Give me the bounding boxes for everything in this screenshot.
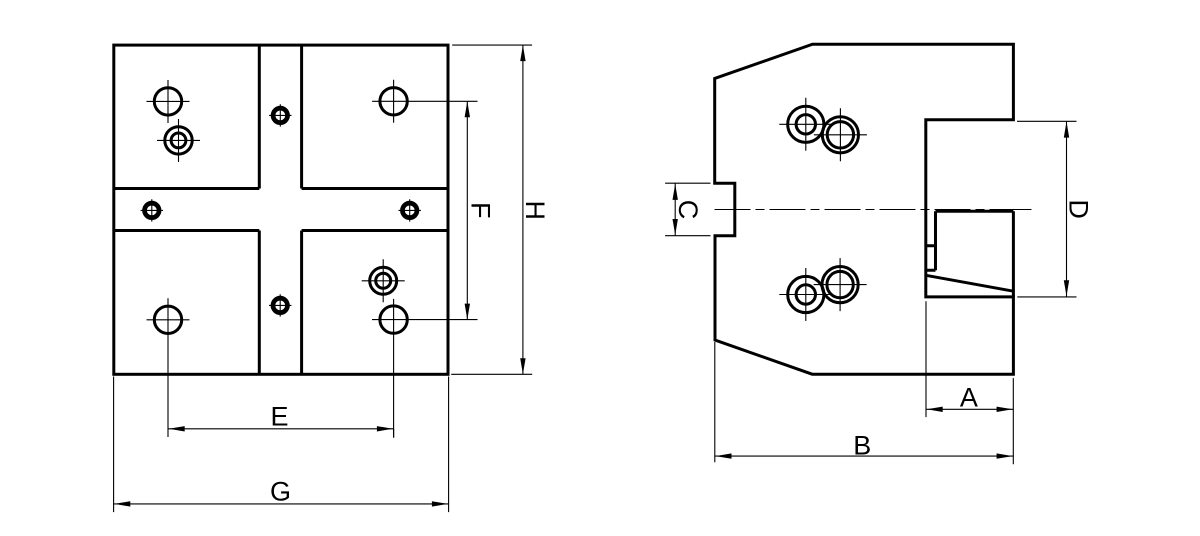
small hole top channel (269, 104, 291, 126)
svg-text:D: D (1064, 199, 1094, 219)
svg-text:E: E (270, 401, 288, 431)
dimension E (168, 401, 394, 437)
side hole top-right (814, 108, 867, 161)
centerline (715, 209, 1032, 211)
side hole bottom-right (814, 258, 867, 311)
dimension B (715, 342, 1014, 462)
dimension D (1017, 121, 1094, 297)
svg-text:C: C (673, 200, 703, 220)
hole top-left (147, 80, 190, 123)
side hole top-left counterbore (779, 98, 832, 151)
counterbore hole bottom-right quadrant (362, 259, 405, 302)
dimension A (926, 301, 1013, 464)
svg-text:H: H (520, 201, 550, 221)
dimension G (114, 377, 449, 513)
counterbore hole top-left (157, 119, 200, 162)
cross channel edges (114, 45, 448, 374)
dimension C (665, 183, 710, 236)
svg-text:G: G (270, 477, 291, 507)
hole bottom-left (147, 298, 190, 437)
small hole bottom channel (269, 294, 291, 316)
side view outline (715, 44, 1014, 374)
hole top-right (372, 80, 477, 123)
dimension H (451, 45, 550, 374)
wedge clamp inside slot (926, 211, 1014, 297)
svg-text:B: B (853, 431, 871, 461)
plate outline (front view square) (114, 45, 448, 374)
side hole bottom-left counterbore (779, 268, 832, 321)
svg-text:F: F (465, 202, 495, 219)
small hole right channel (399, 199, 421, 221)
hole bottom-right (372, 299, 478, 438)
svg-text:A: A (960, 382, 978, 412)
dimension F (465, 101, 496, 319)
small hole left channel (141, 199, 163, 221)
